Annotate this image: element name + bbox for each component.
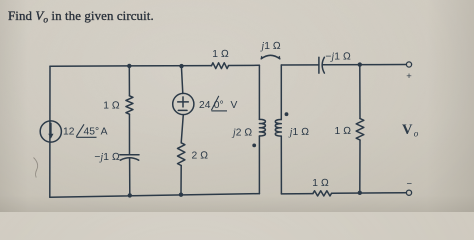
capacitor -j1 top: straight plate xyxy=(318,57,320,73)
wire branch2 upper xyxy=(128,66,130,96)
coil j1 (right winding) xyxy=(275,120,281,137)
svg-text:12: 12 xyxy=(63,127,75,138)
coil j1 top lead xyxy=(280,65,282,120)
wire top primary xyxy=(50,65,212,68)
voltage source V1 circle xyxy=(173,93,194,114)
wire top secondary right xyxy=(323,64,407,66)
wire secondary 1ohm branch upper xyxy=(359,65,361,119)
svg-text:A: A xyxy=(101,127,108,138)
svg-text:2 Ω: 2 Ω xyxy=(192,151,209,162)
wire left side xyxy=(49,66,51,197)
svg-text:1 Ω: 1 Ω xyxy=(312,178,329,189)
terminal top xyxy=(406,62,411,67)
svg-text:j1 Ω: j1 Ω xyxy=(288,127,309,138)
wire top primary right of resistor to left coil xyxy=(229,64,260,66)
wire bottom primary xyxy=(50,194,260,198)
coil j2 top lead xyxy=(258,65,260,119)
coil j1 bottom lead xyxy=(280,136,282,194)
wire branch3 upper xyxy=(181,66,182,93)
svg-text:1 Ω: 1 Ω xyxy=(335,126,352,137)
angle slash for 24/0 xyxy=(211,96,218,110)
svg-text:o: o xyxy=(414,129,419,139)
coil j2 bottom lead xyxy=(258,136,260,194)
svg-text:Find Vo in the given circuit.: Find Vo in the given circuit. xyxy=(8,9,154,25)
svg-text:45°: 45° xyxy=(84,127,100,138)
coil j2 (left winding) xyxy=(259,119,265,136)
node dot bottom branch2 xyxy=(128,193,132,197)
capacitor -j1 branch2: curved plate xyxy=(120,158,138,160)
mutual coupling arc xyxy=(261,55,280,59)
wire bottom secondary left xyxy=(281,193,313,195)
resistor 1ohm secondary vertical xyxy=(356,119,364,141)
polarity dot coil j2 xyxy=(252,144,256,148)
svg-text:−: − xyxy=(407,179,413,190)
node dot top secondary xyxy=(358,62,362,66)
wire secondary 1ohm branch lower xyxy=(359,140,361,193)
node dot top branch3 xyxy=(179,64,183,68)
resistor 1ohm bottom xyxy=(313,191,332,196)
svg-text:+: + xyxy=(406,71,412,82)
wire top secondary xyxy=(281,64,319,66)
capacitor -j1 top: curved plate xyxy=(322,57,324,73)
svg-text:V: V xyxy=(231,100,238,111)
svg-text:1 Ω: 1 Ω xyxy=(212,49,229,60)
svg-text:−j1 Ω: −j1 Ω xyxy=(325,51,350,62)
svg-text:24: 24 xyxy=(199,100,211,111)
resistor 1ohm top xyxy=(212,63,229,69)
svg-text:−j1 Ω: −j1 Ω xyxy=(94,152,119,163)
svg-text:j2 Ω: j2 Ω xyxy=(231,128,252,139)
resistor 2ohm xyxy=(178,143,185,166)
wire branch3 lower xyxy=(180,166,182,195)
svg-text:V: V xyxy=(402,122,413,138)
wire branch3 middle xyxy=(181,115,183,143)
node dot bottom secondary xyxy=(358,191,362,195)
angle slash for 12/45 xyxy=(76,124,84,136)
wire branch2 lower xyxy=(129,158,131,196)
faint paper scratch xyxy=(34,158,38,178)
capacitor -j1 branch2: straight plate xyxy=(120,154,139,156)
svg-text:1 Ω: 1 Ω xyxy=(103,101,120,112)
node dot top branch2 xyxy=(127,64,131,68)
polarity dot coil j1 xyxy=(285,112,289,116)
resistor 1ohm branch2 xyxy=(126,96,133,114)
node dot bottom branch3 xyxy=(179,193,183,197)
current source arrow xyxy=(50,123,52,135)
wire branch2 middle xyxy=(128,114,130,155)
minus inside source xyxy=(178,109,187,111)
current source I1 circle xyxy=(40,121,61,142)
svg-text:j1 Ω: j1 Ω xyxy=(259,41,280,52)
plus inside source xyxy=(178,101,189,103)
terminal bottom xyxy=(406,190,411,195)
wire bottom secondary right xyxy=(332,192,407,195)
